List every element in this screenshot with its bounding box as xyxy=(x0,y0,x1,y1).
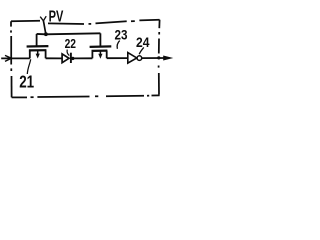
svg-text:24: 24 xyxy=(136,35,149,51)
transistor Q23 substrate arrow xyxy=(98,51,102,58)
transistor Q23 gate lead to rail xyxy=(99,33,101,46)
wire: Q23 drain to inverter 24 input xyxy=(107,57,128,59)
label 21 leader line xyxy=(27,59,30,74)
label 24 leader line xyxy=(139,47,144,54)
wire: top gate rail from Q21 gate to Q23 gate xyxy=(37,33,101,34)
transistor Q21 source stub xyxy=(29,50,31,58)
dashed enclosure bottom edge (chain line) xyxy=(12,95,159,98)
transistor Q21 gate bar xyxy=(27,45,49,48)
transistor Q23 drain stub xyxy=(106,51,108,59)
output arrowhead (signal out) xyxy=(163,56,173,61)
node: junction dot after diode xyxy=(71,57,74,60)
inverter U24 output bubble xyxy=(137,56,142,61)
wire: diode to transistor 23 source xyxy=(73,57,93,59)
transistor Q21 channel bar xyxy=(29,49,47,51)
svg-text:PV: PV xyxy=(49,9,64,26)
input arrowhead (signal in) xyxy=(5,55,11,61)
wire: Q21 drain to diode 22 anode xyxy=(46,57,62,59)
dashed enclosure left edge (chain line) xyxy=(10,21,13,97)
dashed enclosure right edge (chain line) xyxy=(159,20,160,95)
transistor Q23 gate bar xyxy=(90,45,112,48)
transistor Q21 drain stub xyxy=(45,50,47,58)
transistor Q23 channel bar xyxy=(92,49,108,52)
diode D22 triangle xyxy=(62,54,69,63)
inverter U24 triangle xyxy=(128,53,137,64)
PV supply terminal arrow xyxy=(40,16,46,34)
transistor Q21 substrate arrow xyxy=(36,51,40,59)
svg-text:23: 23 xyxy=(115,27,128,43)
diode D22 cathode bar xyxy=(70,53,72,63)
dashed enclosure top edge (chain line) xyxy=(11,20,160,24)
wire: input to transistor 21 source xyxy=(1,57,30,59)
transistor Q23 source stub xyxy=(91,51,93,58)
node: dot where output crosses enclosure edge xyxy=(157,56,160,59)
label 22 leader line xyxy=(67,50,69,56)
node: PV junction dot on rail xyxy=(44,32,48,36)
wire: inverter output to box edge xyxy=(142,57,165,59)
transistor Q21 gate lead to rail xyxy=(36,34,38,46)
svg-text:21: 21 xyxy=(19,71,34,91)
label 23 leader line xyxy=(117,41,120,49)
svg-text:22: 22 xyxy=(65,37,76,51)
